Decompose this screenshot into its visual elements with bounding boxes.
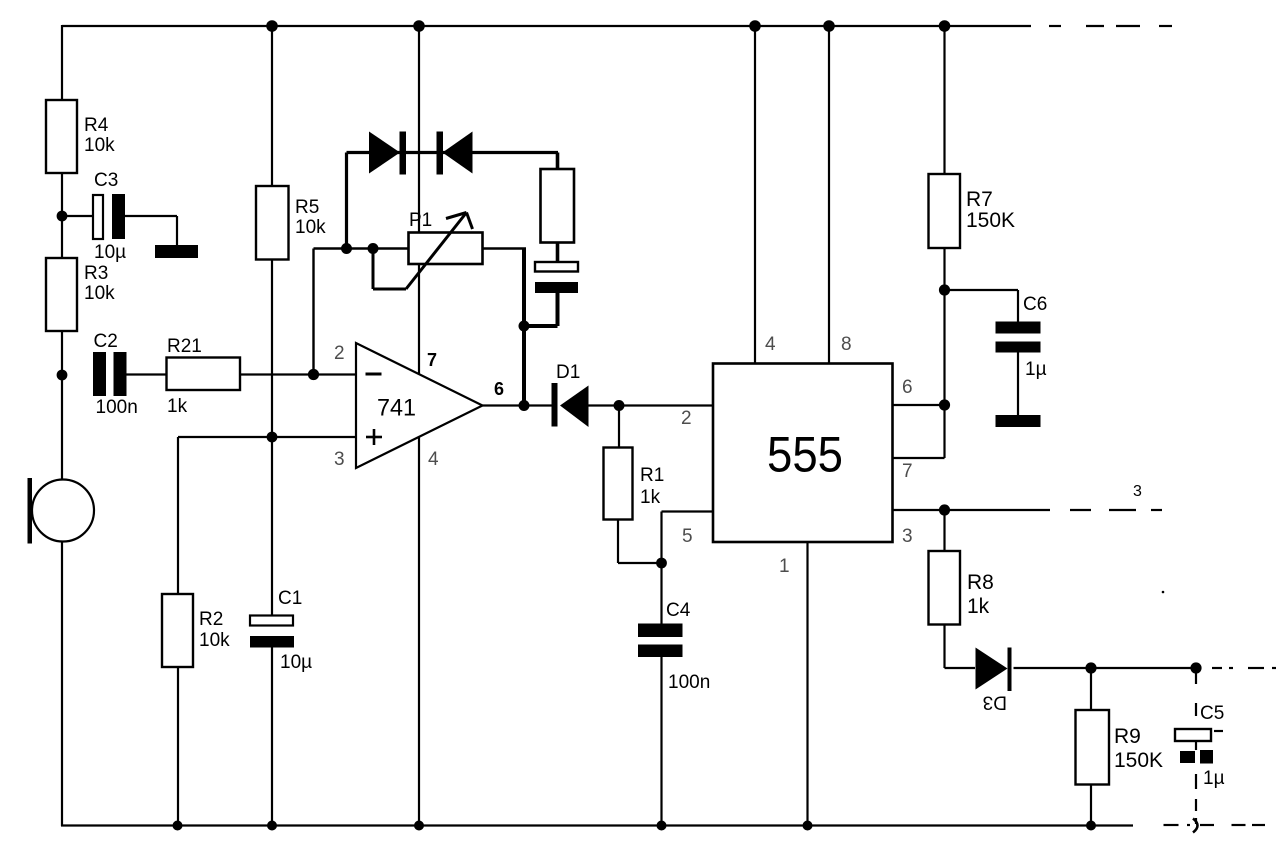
svg-text:R5: R5 <box>295 197 319 218</box>
svg-text:10k: 10k <box>199 630 230 651</box>
node top rail / R5 column <box>266 20 278 32</box>
node bottom rail / C4 column <box>657 821 667 831</box>
wire R21 to op-amp inverting input <box>240 373 356 375</box>
svg-text:2: 2 <box>334 343 345 364</box>
svg-text:R2: R2 <box>199 609 223 630</box>
node R3/C2 junction <box>57 370 68 381</box>
svg-text:1k: 1k <box>167 396 188 417</box>
IC U2 555 <box>713 364 893 543</box>
wire inverting feedback riser <box>312 249 314 375</box>
svg-text:4: 4 <box>765 334 776 355</box>
svg-text:3: 3 <box>1133 483 1142 500</box>
resistor R1 <box>618 406 620 449</box>
wire 555 pin7 loop <box>893 457 945 459</box>
svg-text:10k: 10k <box>84 283 115 304</box>
resistor feedback (unlabelled) <box>541 169 575 243</box>
svg-text:7: 7 <box>427 350 437 370</box>
node top rail / R7 column <box>939 20 951 32</box>
potentiometer P1 arrow <box>406 213 467 290</box>
svg-text:R4: R4 <box>84 115 109 136</box>
svg-text:4: 4 <box>428 449 439 470</box>
wire feedback RC branch <box>556 153 560 171</box>
svg-text:R7: R7 <box>966 188 993 211</box>
svg-text:3: 3 <box>902 526 913 547</box>
svg-text:1: 1 <box>779 556 790 577</box>
op-amp U1 741 <box>356 343 483 468</box>
ground bar for C3 <box>155 245 198 258</box>
wire bottom rail dashed extension <box>1164 824 1266 826</box>
node bottom rail / op-amp supply column <box>414 821 424 831</box>
node inverting input junction <box>308 369 319 380</box>
svg-text:R21: R21 <box>167 336 202 357</box>
resistor R4 <box>46 100 77 173</box>
wire top rail dashed extension <box>1049 25 1172 27</box>
wire op-amp output <box>483 404 553 406</box>
node D3 net / C5 junction <box>1190 662 1201 673</box>
svg-text:C6: C6 <box>1023 294 1047 315</box>
node D1 / R1 junction <box>614 400 625 411</box>
resistor R5 <box>256 186 289 260</box>
svg-text:R9: R9 <box>1114 725 1141 748</box>
node top rail / 555 pin8 column <box>823 20 835 32</box>
node top rail / op-amp supply column <box>413 20 425 32</box>
wire P1 left horizontal <box>314 247 410 250</box>
capacitor C4 <box>638 624 683 638</box>
svg-text:10k: 10k <box>295 217 326 238</box>
node R1 / pin5 / C4 junction <box>656 558 667 569</box>
node pin3 / R8 junction <box>939 504 950 515</box>
wire 555 pin3 <box>893 509 1051 511</box>
node feedback diode riser junction <box>341 243 352 254</box>
node bottom rail / C1 column <box>267 821 277 831</box>
node D3 / R9 junction <box>1085 662 1096 673</box>
svg-text:6: 6 <box>494 379 504 399</box>
wire R5/C1 column <box>271 26 273 186</box>
svg-text:R1: R1 <box>640 465 664 486</box>
wire 555 pin4 column <box>754 26 756 364</box>
wire 555 pin8 column <box>828 26 830 364</box>
diode D1 <box>552 383 558 427</box>
node top rail / 555 pin4 column <box>749 20 761 32</box>
wire left rail <box>61 25 63 826</box>
svg-text:5: 5 <box>682 526 693 547</box>
microphone MIC <box>28 478 33 544</box>
svg-text:6: 6 <box>902 377 913 398</box>
wire 555 pin6 <box>893 404 945 406</box>
wire P1 right horizontal <box>483 247 527 250</box>
capacitor C6 <box>945 289 1019 291</box>
capacitor feedback (unlabelled, polarised) <box>535 262 578 272</box>
svg-text:10µ: 10µ <box>280 652 312 673</box>
svg-text:10µ: 10µ <box>94 242 126 263</box>
svg-text:C2: C2 <box>94 331 118 352</box>
svg-text:1µ: 1µ <box>1203 768 1225 789</box>
wire D1 to 555 pin2 <box>589 404 714 406</box>
node feedback RC junction <box>519 321 530 332</box>
capacitor C1 <box>250 616 293 626</box>
svg-text:R8: R8 <box>967 571 994 594</box>
svg-text:10k: 10k <box>84 135 115 156</box>
resistor R3 <box>46 258 77 331</box>
svg-text:100n: 100n <box>96 397 138 418</box>
wire diode row horizontal <box>347 151 559 154</box>
svg-text:2: 2 <box>681 408 692 429</box>
node P1 wiper junction <box>368 243 379 254</box>
potentiometer P1 body <box>409 233 483 265</box>
wire 555 pin5 <box>662 510 714 512</box>
stray dot <box>1162 591 1165 594</box>
svg-text:D1: D1 <box>556 362 580 383</box>
wire bottom rail <box>61 824 1133 826</box>
svg-text:150K: 150K <box>966 209 1015 232</box>
resistor R8 <box>943 510 945 552</box>
capacitor C2 <box>93 352 106 396</box>
svg-text:3: 3 <box>334 449 345 470</box>
svg-text:7: 7 <box>902 461 913 482</box>
capacitor C5 (dashed) <box>1195 673 1197 824</box>
wire 555 pin1 column <box>806 542 808 825</box>
wire diode branch left riser <box>345 153 348 249</box>
svg-text:555: 555 <box>767 427 843 483</box>
node R4/R3/C3 junction <box>57 211 68 222</box>
wire feedback down to output <box>522 249 526 406</box>
resistor R7 <box>929 174 961 248</box>
wire top rail <box>62 25 1031 27</box>
node non-inverting input / R5-C1 column junction <box>267 432 278 443</box>
diode D(left) of back-to-back pair <box>369 132 400 174</box>
capacitor C3 <box>62 215 93 217</box>
resistor R2 <box>162 594 193 667</box>
diode D(right) of back-to-back pair <box>437 132 444 175</box>
svg-text:100n: 100n <box>668 672 710 693</box>
svg-text:1k: 1k <box>967 595 990 618</box>
svg-text:D3: D3 <box>983 692 1007 713</box>
svg-text:C4: C4 <box>666 600 691 621</box>
wire dash-dot right of D3 net <box>1212 667 1276 669</box>
svg-text:C3: C3 <box>94 170 118 191</box>
svg-text:8: 8 <box>841 334 852 355</box>
wire R7 column <box>943 26 945 174</box>
diode D3 <box>976 648 1008 690</box>
svg-text:1k: 1k <box>640 487 661 508</box>
node pin6/pin7 junction <box>939 399 950 410</box>
node bottom rail / 555 pin1 column <box>803 821 813 831</box>
node bottom rail / R9 column <box>1086 821 1096 831</box>
svg-text:741: 741 <box>377 395 416 422</box>
svg-text:R3: R3 <box>84 263 108 284</box>
svg-text:C1: C1 <box>278 588 302 609</box>
node R7 / C6 junction <box>939 284 950 295</box>
svg-text:P1: P1 <box>409 210 432 231</box>
wire non-inverting input <box>178 436 356 438</box>
resistor R21 <box>167 358 241 391</box>
svg-text:C5: C5 <box>1200 703 1224 724</box>
node op-amp output junction <box>519 400 530 411</box>
svg-text:1µ: 1µ <box>1025 359 1047 380</box>
bottom rail curve near C5 <box>1193 819 1198 833</box>
wire op-amp supply column <box>418 26 420 825</box>
potentiometer P1 wiper stub <box>372 249 375 290</box>
svg-text:150K: 150K <box>1114 749 1163 772</box>
node bottom rail / R2 column <box>173 821 183 831</box>
resistor R9 <box>1090 668 1092 710</box>
